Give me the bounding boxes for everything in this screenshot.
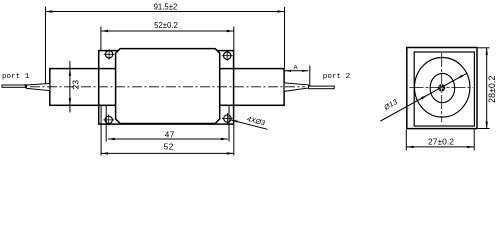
svg-text:27±0.2: 27±0.2 xyxy=(428,137,454,147)
port 1 ferrule tick xyxy=(25,84,27,88)
arrow 27 right xyxy=(467,146,474,148)
arrow 47 left xyxy=(108,138,115,140)
arrowheads xyxy=(45,10,488,154)
arrow dia13 upper-right xyxy=(456,75,463,80)
arrow 52 bottom right xyxy=(227,152,234,154)
end view middle circle xyxy=(430,73,455,102)
dim 52 top line xyxy=(101,27,234,51)
mounting hole bottom-left xyxy=(103,115,114,126)
svg-text:91.5±2: 91.5±2 xyxy=(154,2,178,11)
dim A line xyxy=(285,66,310,86)
arrow 52 bottom left xyxy=(101,152,108,154)
end view large circle xyxy=(415,58,470,118)
port 1 boot xyxy=(27,84,50,91)
end view crosshair vertical xyxy=(441,53,443,122)
arrow 52 top right xyxy=(227,30,234,32)
port 2 boot xyxy=(284,83,308,92)
leader 4x03 xyxy=(231,120,268,129)
arrow 28 top xyxy=(486,48,488,55)
arrow 23 bottom xyxy=(69,98,71,105)
dim 47 line xyxy=(108,138,228,140)
end view inner square xyxy=(414,52,474,126)
centerline xyxy=(30,86,305,88)
port 1 fiber xyxy=(2,85,27,87)
svg-text:47: 47 xyxy=(165,130,175,139)
dim 28 line xyxy=(478,48,490,129)
svg-text:52±0.2: 52±0.2 xyxy=(154,21,178,30)
flange plate xyxy=(99,51,234,125)
dim 27 line xyxy=(406,130,474,151)
arrow A right xyxy=(302,70,309,72)
svg-text:port 2: port 2 xyxy=(323,73,351,81)
arrow 47 right xyxy=(221,138,228,140)
end view center dot xyxy=(438,84,445,91)
end view crosshair horizontal xyxy=(410,87,474,89)
svg-text:A: A xyxy=(293,64,298,71)
svg-text:port 1: port 1 xyxy=(2,73,30,81)
arrow A left xyxy=(285,70,292,72)
svg-text:23: 23 xyxy=(70,80,80,90)
end view outer square xyxy=(407,48,477,129)
mounting hole bottom-right xyxy=(222,113,233,124)
dim 23 line xyxy=(69,61,71,113)
arrow 91.5 right xyxy=(277,10,284,12)
arrow 91.5 left xyxy=(45,10,52,12)
svg-text:52: 52 xyxy=(164,143,174,152)
mounting hole top-left xyxy=(104,49,115,60)
dim 52 bottom line xyxy=(101,152,234,154)
port 2 fiber xyxy=(309,86,335,89)
svg-text:28±0.2: 28±0.2 xyxy=(487,76,497,103)
dia 13 diagonal line xyxy=(380,73,467,121)
arrow 52 top left xyxy=(101,30,108,32)
dim 91.5 line xyxy=(45,7,284,84)
arrow 27 left xyxy=(407,146,414,148)
tube body outline xyxy=(50,69,284,106)
bottom extension lines xyxy=(101,106,234,156)
arrow 23 top xyxy=(69,69,71,76)
arrow dia13 lower-left xyxy=(421,95,428,100)
cover box with chamfered corners xyxy=(116,49,220,124)
arrow leader 4x03 xyxy=(231,120,238,123)
arrow 28 bottom xyxy=(486,122,488,129)
mounting hole top-right xyxy=(222,50,233,61)
